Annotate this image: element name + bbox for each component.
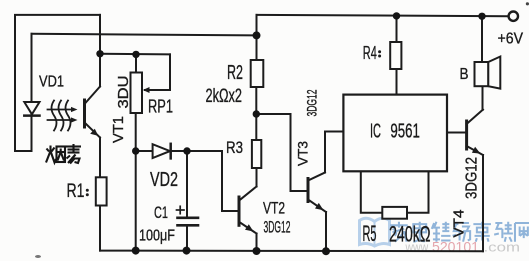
wire: VT4 emitter vertical xyxy=(482,155,484,251)
resistor R3 xyxy=(252,140,261,168)
svg-text:520101: 520101 xyxy=(432,240,479,255)
smoke arrows into VT1 xyxy=(48,101,78,131)
wire: R2 bottom to node xyxy=(255,87,257,140)
wire: RP1 top lead xyxy=(135,54,137,72)
svg-text:VT3: VT3 xyxy=(295,141,311,166)
svg-text:R4: R4 xyxy=(363,43,377,63)
svg-text:C1: C1 xyxy=(154,203,168,222)
watermark: book icon xyxy=(360,218,390,246)
wire: VT3 emitter vertical xyxy=(325,212,327,251)
node: R4 top on rail xyxy=(393,12,400,19)
svg-text:IC: IC xyxy=(370,121,381,143)
wire: speaker bottom to VT4 collector xyxy=(482,86,484,110)
watermark: 家电维修资料网 (hanzi, light blue) xyxy=(390,222,529,242)
svg-text:3DG12: 3DG12 xyxy=(264,218,291,237)
wire: C1 top lead xyxy=(186,151,188,218)
svg-text:9561: 9561 xyxy=(390,121,420,143)
svg-text:VD1: VD1 xyxy=(39,74,64,91)
potentiometer RP1 wiper arrow xyxy=(143,87,150,93)
wire: VT1 emitter vertical to R1 xyxy=(99,138,101,178)
svg-text:R2: R2 xyxy=(227,62,243,84)
node: speaker top on rail xyxy=(478,13,485,20)
svg-text:B: B xyxy=(460,66,469,83)
svg-text:R3: R3 xyxy=(226,138,243,157)
transistor VT4 xyxy=(467,110,483,156)
svg-text:.com: .com xyxy=(484,240,521,255)
wire: RP1 bottom lead down to rail xyxy=(135,113,137,251)
wire: VT2 emitter vertical xyxy=(256,234,258,252)
wire: bottom ground rail xyxy=(100,250,483,253)
svg-text:3DG12: 3DG12 xyxy=(464,157,481,199)
speaker B xyxy=(475,57,501,89)
potentiometer RP1 body xyxy=(131,73,143,114)
svg-text:VT4: VT4 xyxy=(451,210,468,238)
node: rail/R2 top junction xyxy=(253,31,261,39)
svg-text:VD2: VD2 xyxy=(150,169,178,191)
wire: VD2 node to VT2 base xyxy=(222,151,238,211)
node: RP1 top junction xyxy=(132,51,139,58)
svg-text:2kΩx2: 2kΩx2 xyxy=(206,86,243,107)
wire: speaker top lead xyxy=(481,16,483,62)
wire: VT1 collector vertical xyxy=(99,54,101,87)
scan speck bottom-left xyxy=(35,255,41,258)
wire: R4 top lead xyxy=(396,16,398,42)
IC U1 9561 box xyxy=(343,95,447,172)
node: R2 bottom / R3 / VT3 base junction xyxy=(253,110,260,117)
svg-text:240kΩ: 240kΩ xyxy=(389,222,431,247)
capacitor C1 xyxy=(177,206,199,225)
wire: VD1 branch vertical xyxy=(31,34,33,151)
svg-text:3DG12: 3DG12 xyxy=(304,89,320,116)
scan speck top-right xyxy=(526,2,529,5)
wire: R5 loop right xyxy=(407,171,429,213)
node: VD2 anode junction xyxy=(132,147,139,154)
wire: horizontal node line y=54 xyxy=(100,53,170,56)
resistor R2 xyxy=(251,60,264,87)
wire: C1 bottom lead xyxy=(186,225,188,250)
transistor VT2 xyxy=(239,187,257,234)
wire: RP1 wiper loop right side xyxy=(145,54,170,90)
wire: R2 top vertical from rail xyxy=(256,15,258,60)
wire: R4 bottom lead into IC xyxy=(396,69,398,95)
svg-text:VT2: VT2 xyxy=(263,199,285,218)
transistor VT1 (3DU phototransistor) xyxy=(85,87,101,138)
resistor R4 xyxy=(390,42,401,69)
svg-text:R5: R5 xyxy=(363,221,377,246)
node: RP1 branch on ground rail xyxy=(132,247,140,255)
wire: IC to VT4 base xyxy=(447,132,465,134)
wire: vertical from top-left rail down to VT1 collector node xyxy=(99,15,101,54)
wire: top rail right section to +6V xyxy=(257,15,509,16)
node: VT2 emitter on ground rail xyxy=(253,247,261,255)
resistor R1 xyxy=(96,177,107,205)
diode VD1 (photodiode) xyxy=(24,102,39,116)
wire: R5 loop left xyxy=(361,171,383,213)
label 烟雾 (smoke) xyxy=(46,144,81,164)
wire: node to VT3 base xyxy=(256,114,306,191)
svg-text:VT1: VT1 xyxy=(110,116,127,143)
watermark: www.520101.com xyxy=(405,240,520,255)
transistor VT3 xyxy=(308,173,326,213)
node: C1 on ground rail xyxy=(183,247,191,255)
wire: R3 bottom to VT2 collector xyxy=(256,168,258,187)
node: VD2 cathode / C1 junction xyxy=(183,147,190,154)
svg-text:3DU: 3DU xyxy=(115,76,132,109)
diode VD2 xyxy=(153,144,171,159)
wire: VD2 branch horizontal xyxy=(136,150,222,152)
+6V terminal circle xyxy=(509,12,518,21)
svg-text:RP1: RP1 xyxy=(148,97,173,117)
svg-text:R1: R1 xyxy=(67,181,85,202)
resistor R5 xyxy=(382,207,407,219)
wire: VT3 collector vertical and into IC xyxy=(325,132,343,173)
node: VT3 emitter on ground rail xyxy=(322,247,330,255)
svg-text:+6V: +6V xyxy=(498,31,524,48)
wire: inner horizontal y=34 xyxy=(32,34,257,36)
wire: top-left rail and left outer loop xyxy=(15,15,100,151)
svg-text:100μF: 100μF xyxy=(139,228,175,245)
wire: R1 bottom to ground rail xyxy=(99,206,101,251)
node: VT1 collector junction xyxy=(96,50,103,57)
